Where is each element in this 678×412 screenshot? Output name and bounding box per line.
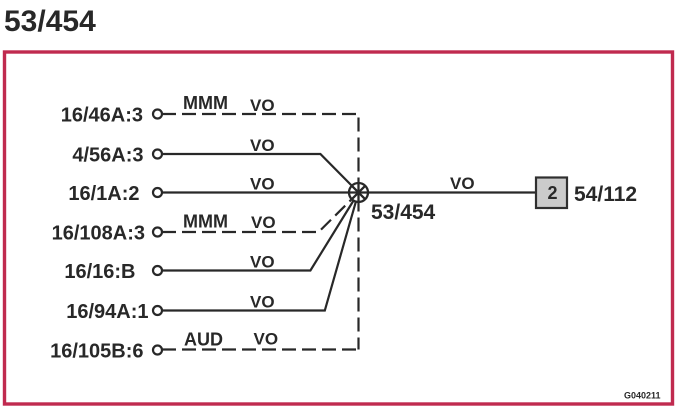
- wire 4/56A:3 VO solid to splice: [162, 154, 359, 193]
- terminal 16/94A:1: [153, 306, 162, 315]
- svg-text:16/94A:1: 16/94A:1: [66, 301, 148, 323]
- wire 16/1A:2 VO solid through splice to connector 54/112: [162, 191, 535, 193]
- svg-text:VO: VO: [250, 293, 275, 312]
- wire 16/108A:3 MMM/VO dashed with diagonal to splice: [162, 193, 359, 233]
- wire 16/16:B VO solid to splice: [162, 193, 359, 271]
- svg-text:VO: VO: [250, 96, 275, 115]
- svg-text:MMM: MMM: [183, 93, 228, 113]
- svg-text:VO: VO: [250, 136, 275, 155]
- svg-text:MMM: MMM: [183, 212, 228, 232]
- svg-text:53/454: 53/454: [4, 5, 96, 38]
- svg-text:54/112: 54/112: [574, 183, 637, 206]
- svg-text:G040211: G040211: [624, 391, 661, 401]
- svg-text:VO: VO: [254, 330, 279, 349]
- terminal 16/46A:3: [153, 110, 162, 119]
- svg-text:53/454: 53/454: [371, 201, 436, 224]
- svg-text:VO: VO: [250, 253, 275, 272]
- svg-text:16/16:B: 16/16:B: [64, 261, 135, 283]
- wire 16/105B:6 AUD/VO dashed bottom horizontal: [162, 348, 359, 350]
- svg-text:VO: VO: [250, 175, 275, 194]
- svg-text:4/56A:3: 4/56A:3: [72, 145, 143, 167]
- splice 53/454 (circle with 8 spokes): [349, 183, 368, 202]
- svg-text:16/108A:3: 16/108A:3: [52, 223, 145, 245]
- svg-text:2: 2: [547, 183, 557, 203]
- connector 54/112 pin 2 (gray box): [536, 178, 567, 209]
- wire 16/46A:3 MMM/VO dashed to splice (top + right vertical of dashed run): [162, 114, 359, 350]
- svg-text:16/105B:6: 16/105B:6: [50, 341, 143, 363]
- svg-text:16/1A:2: 16/1A:2: [68, 183, 139, 205]
- terminal 16/1A:2: [153, 188, 162, 197]
- svg-text:16/46A:3: 16/46A:3: [61, 105, 143, 127]
- wire 16/94A:1 VO solid to splice: [162, 193, 359, 311]
- svg-text:VO: VO: [450, 174, 475, 193]
- svg-text:VO: VO: [251, 213, 276, 232]
- terminal 16/105B:6: [153, 346, 162, 355]
- svg-text:AUD: AUD: [184, 330, 223, 350]
- terminal 16/16:B: [153, 266, 162, 275]
- terminal 4/56A:3: [153, 150, 162, 159]
- terminal 16/108A:3: [153, 228, 162, 237]
